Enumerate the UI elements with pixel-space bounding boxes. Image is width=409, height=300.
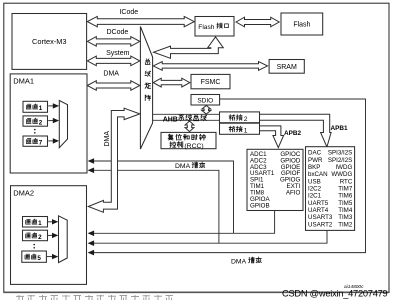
svg-text:AFIO: AFIO	[286, 190, 301, 197]
channel box DMA1 通道1	[23, 101, 48, 112]
block SDIO	[191, 95, 220, 106]
arrowhead into DMA2 line 1	[88, 231, 95, 237]
wire DMA request APB2 group: line A to DMA1	[94, 161, 234, 233]
AHB bus band left segment	[153, 114, 220, 120]
svg-text:2: 2	[244, 116, 248, 123]
svg-text:1: 1	[39, 105, 43, 112]
bus arrow System	[87, 56, 140, 66]
svg-text:USB: USB	[308, 178, 321, 185]
svg-text:PWR: PWR	[308, 157, 323, 164]
svg-text:DMA: DMA	[175, 163, 191, 170]
block DMA2	[11, 186, 87, 285]
arrowhead into DMA2 line 3	[88, 250, 95, 256]
svg-text:1: 1	[38, 220, 42, 227]
svg-text:I2C2: I2C2	[308, 186, 322, 193]
bus matrix vertical label 总线矩阵	[145, 59, 151, 101]
mux DMA2	[59, 216, 68, 263]
wire ch2 to mux DMA2	[48, 234, 53, 236]
svg-text:(RCC): (RCC)	[184, 143, 203, 150]
vertical arrow AHB to RCC	[185, 121, 194, 132]
block bridge2 桥接2	[220, 112, 260, 123]
svg-text:DMA: DMA	[103, 71, 119, 78]
svg-text:Cortex-M3: Cortex-M3	[32, 37, 67, 46]
bus arrow DMA (DMA1 port)	[87, 81, 140, 91]
ellipsis dots DMA1	[34, 129, 36, 131]
cpu block Cortex-M3	[12, 14, 87, 70]
block RCC 复位和时钟控制	[161, 132, 216, 148]
block DMA1	[10, 74, 87, 173]
channel box DMA2 通道2	[23, 230, 48, 241]
svg-text:DMA1: DMA1	[13, 76, 34, 85]
svg-text:DCode: DCode	[107, 29, 129, 36]
svg-text:TIM5: TIM5	[338, 200, 353, 207]
bus arrow ICode	[87, 16, 194, 26]
bus matrix shape	[140, 27, 152, 150]
mux DMA1	[59, 101, 67, 148]
bus arrow DCode	[87, 37, 140, 47]
channel box DMA1 通道2	[23, 116, 48, 126]
wire ch5 to mux DMA2	[46, 256, 52, 258]
svg-text:CSDN @weixin_47207479: CSDN @weixin_47207479	[282, 288, 388, 298]
wire DMA request to DMA2 from APB2 drop	[94, 211, 275, 234]
svg-text:IWDG: IWDG	[335, 164, 352, 171]
bus arrow Flash interface to Flash	[236, 17, 279, 27]
channel box DMA2 通道5	[22, 251, 47, 262]
svg-text:TIM4: TIM4	[338, 207, 353, 214]
ellipsis dots DMA2	[33, 244, 35, 246]
svg-text:DMA: DMA	[104, 131, 111, 147]
svg-text:TIM3: TIM3	[338, 214, 353, 221]
svg-text:UART4: UART4	[308, 207, 329, 214]
svg-text:Flash: Flash	[198, 24, 214, 31]
svg-text:UART5: UART5	[308, 200, 329, 207]
svg-text:SDIO: SDIO	[197, 97, 213, 104]
svg-text:2: 2	[39, 119, 43, 126]
svg-text:APB2: APB2	[284, 130, 301, 137]
wire SDIO DMA request wrap to DMA2	[94, 99, 366, 253]
svg-text:USART3: USART3	[308, 214, 333, 221]
DMA2 to bus matrix bus (double headed L path), label DMA	[88, 108, 140, 212]
bus arrow to FSMC	[153, 78, 190, 87]
svg-text:2: 2	[38, 234, 42, 241]
outer frame bottom thick edge	[4, 291, 389, 293]
arrowhead into DMA2 line 2	[88, 240, 95, 246]
AHB bus band right segment + APB1 drop arrow	[260, 114, 332, 147]
bus arrow to SRAM	[153, 62, 267, 71]
block APB1 peripherals	[306, 147, 355, 231]
svg-text:System: System	[106, 50, 130, 57]
vertical arrow SDIO to AHB	[202, 106, 211, 115]
svg-text:1: 1	[244, 127, 248, 134]
svg-text:5: 5	[37, 255, 41, 262]
block Flash	[281, 13, 323, 35]
svg-text:DMA2: DMA2	[13, 188, 34, 197]
wire ch1 to mux DMA2	[48, 221, 53, 223]
svg-text:BKP: BKP	[308, 164, 320, 171]
svg-text:DMA: DMA	[231, 258, 247, 265]
caption sliver (clipped bottom text)	[16, 295, 173, 300]
svg-text:SPI3/I2S: SPI3/I2S	[328, 150, 352, 157]
svg-text:ICode: ICode	[119, 9, 138, 16]
block Flash interface	[195, 17, 234, 37]
svg-text:TIM7: TIM7	[338, 186, 353, 193]
wire ch1 to mux	[48, 105, 53, 107]
svg-text:I2C1: I2C1	[308, 193, 322, 200]
wire DMA request APB1 group: line B to DMA1	[94, 170, 219, 243]
channel box DMA2 通道1	[23, 217, 48, 228]
wire ch7 to mux	[48, 140, 53, 142]
svg-text:Flash: Flash	[293, 22, 310, 29]
wire ch2 to mux	[48, 120, 53, 122]
svg-text:USART2: USART2	[308, 221, 333, 228]
svg-text:TIM6: TIM6	[338, 193, 353, 200]
wire DMA request to DMA2 from APB1 drop	[94, 230, 328, 243]
svg-text:DAC: DAC	[308, 150, 322, 157]
svg-text:APB1: APB1	[331, 125, 348, 132]
svg-text:GPIOB: GPIOB	[250, 203, 270, 210]
arrowhead into DMA1 line A	[88, 158, 95, 164]
svg-text:bxCAN: bxCAN	[308, 171, 328, 178]
svg-text:RTC: RTC	[340, 178, 353, 185]
svg-text:FSMC: FSMC	[201, 79, 221, 86]
svg-text:7: 7	[39, 139, 43, 146]
svg-text:SRAM: SRAM	[277, 64, 297, 71]
channel box DMA1 通道7	[23, 136, 48, 146]
block FSMC	[191, 74, 230, 88]
block APB2 peripherals	[247, 149, 303, 210]
L arrow bus matrix to Flash interface	[154, 37, 224, 58]
svg-text:WWDG: WWDG	[331, 171, 352, 178]
block SRAM	[269, 60, 304, 74]
APB2 drop arrow from bridge1	[259, 126, 284, 148]
arrowhead into DMA1 line B	[88, 168, 95, 174]
svg-text:TIM2: TIM2	[338, 221, 353, 228]
block bridge1 桥接1	[220, 123, 260, 134]
svg-text:SPI2/I2S: SPI2/I2S	[328, 157, 352, 164]
svg-text:AHB: AHB	[163, 116, 178, 123]
